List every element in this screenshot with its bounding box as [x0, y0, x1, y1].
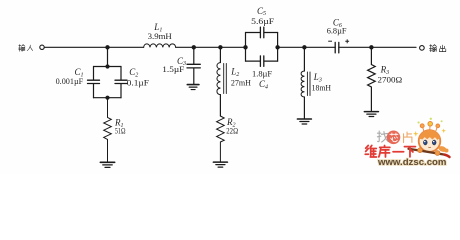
- junction dots: [105, 45, 373, 100]
- ground (R2): [213, 161, 227, 163]
- svg-text:1.8µF: 1.8µF: [252, 69, 272, 79]
- wire main line input segment: [44, 46, 143, 48]
- watermark sparkle stars: [413, 129, 446, 137]
- svg-text:22Ω: 22Ω: [226, 126, 238, 136]
- svg-text:27mH: 27mH: [231, 78, 252, 88]
- ground (R3): [364, 111, 378, 113]
- svg-text:2700Ω: 2700Ω: [378, 75, 403, 85]
- svg-text:3.9mH: 3.9mH: [148, 31, 173, 41]
- input terminal circle: [40, 45, 44, 49]
- wire C5C4 box left side: [245, 33, 247, 62]
- svg-text:www.dzsc.com: www.dzsc.com: [377, 157, 446, 168]
- node B: [192, 45, 196, 49]
- inductor L2: [217, 47, 226, 116]
- svg-text:1.5µF: 1.5µF: [162, 64, 184, 74]
- capacitor C3: [187, 47, 200, 84]
- ground (R1): [100, 161, 114, 163]
- svg-text:6.8µF: 6.8µF: [327, 25, 347, 35]
- svg-text:51Ω: 51Ω: [115, 126, 126, 136]
- resistor R3: [368, 47, 376, 111]
- node A bottom bar junction: [105, 96, 109, 100]
- capacitor C4: [246, 56, 278, 67]
- watermark mascot arm trail dots: [438, 145, 449, 153]
- node E: [275, 45, 279, 49]
- wire C1C2 bottom bar: [94, 97, 122, 99]
- svg-text:L2: L2: [230, 67, 239, 78]
- watermark brush stick: [409, 149, 445, 155]
- label output 输出: [429, 45, 445, 52]
- wire stub node A down: [107, 47, 109, 66]
- ground (L3): [297, 118, 311, 120]
- inductor L3: [301, 47, 310, 118]
- label minus sign C6: [328, 40, 332, 42]
- output terminal circle: [420, 46, 425, 51]
- wire box to C6: [278, 46, 336, 48]
- ground (C3): [187, 84, 199, 86]
- wire C6 to output: [339, 46, 416, 48]
- wire L1 to box: [176, 46, 246, 48]
- watermark mascot head: [419, 130, 441, 152]
- watermark outlined text 找芯片: [377, 131, 388, 142]
- watermark red disc behind 芯: [387, 131, 401, 145]
- label plus sign C6: [345, 39, 349, 43]
- svg-text:5.6µF: 5.6µF: [251, 16, 274, 26]
- inductor L1: [144, 44, 176, 47]
- capacitor C5: [246, 27, 278, 38]
- svg-text:18mH: 18mH: [312, 82, 332, 92]
- svg-text:C4: C4: [259, 79, 268, 90]
- resistor R2: [217, 116, 225, 162]
- resistor R1: [104, 98, 112, 162]
- capacitor C2: [115, 67, 127, 98]
- node C: [218, 45, 222, 49]
- node F: [302, 45, 306, 49]
- watermark mascot antennae: [418, 118, 443, 131]
- watermark: [365, 118, 449, 168]
- wire C1C2 top bar: [94, 66, 122, 68]
- wire C5C4 box right side: [277, 33, 279, 62]
- label input 输入: [19, 45, 33, 52]
- capacitor C1: [88, 67, 100, 98]
- node G: [369, 45, 373, 49]
- node A: [105, 45, 109, 49]
- capacitor C6: [335, 42, 339, 53]
- node D: [243, 45, 247, 49]
- svg-text:0.1µF: 0.1µF: [127, 78, 149, 88]
- node A top bar junction: [105, 64, 109, 68]
- svg-text:0.001µF: 0.001µF: [56, 76, 84, 86]
- watermark red text 维库一下: [365, 146, 415, 158]
